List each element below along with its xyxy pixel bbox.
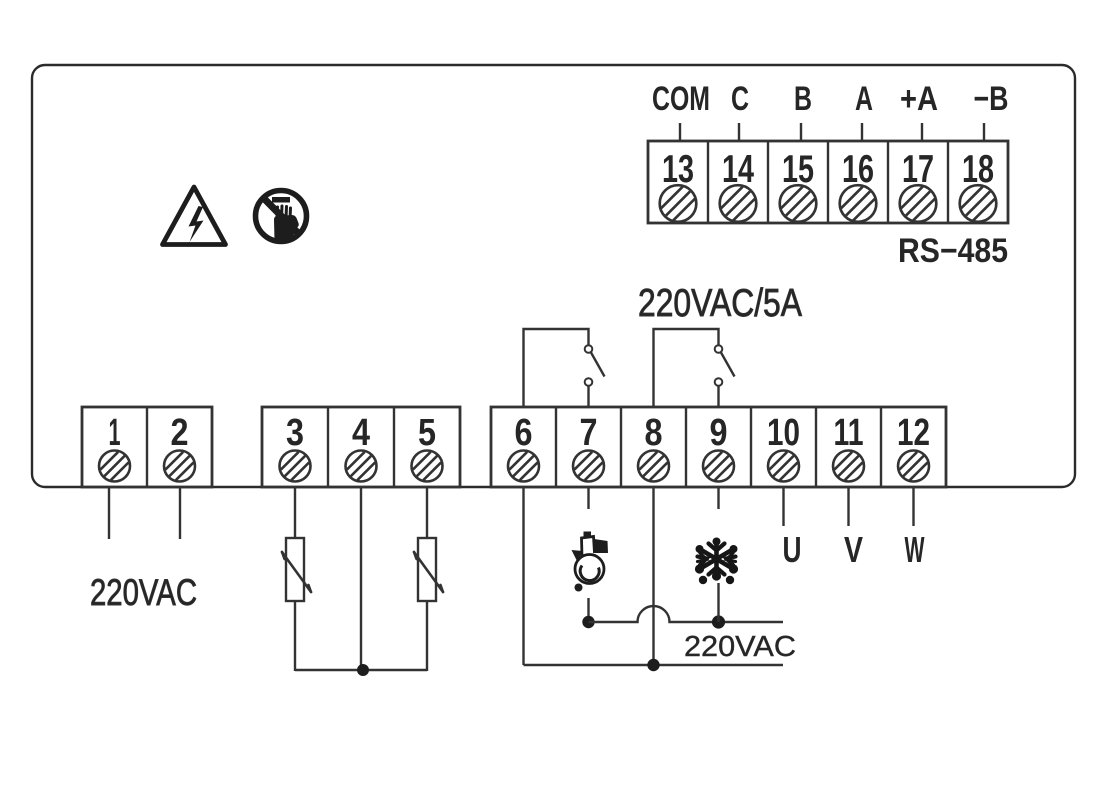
RS-485 terminal block (13-18) [648,141,1008,223]
junction dot compressor branch [712,615,725,628]
wire from terminal 5 [426,487,428,538]
thermistor sensor RT2 body [418,538,436,601]
lead to B [800,123,802,141]
svg-text:11: 11 [834,412,864,454]
high voltage warning triangle [163,187,226,245]
terminal 3 screw [280,451,311,482]
wire below snowflake to junction [717,583,719,622]
snowflake cooling icon [695,538,738,585]
terminal 16 screw [840,185,877,222]
svg-text:B: B [794,80,812,118]
svg-text:2: 2 [171,412,189,454]
relay contact K2 upper pivot [715,345,723,353]
wire stub below terminal 12 [912,487,914,526]
wire from terminal 1 [108,487,110,539]
svg-text:4: 4 [352,412,370,454]
terminal 9 screw [703,451,734,482]
relay contact K1 upper pivot [585,345,593,353]
svg-text:1: 1 [109,412,121,454]
svg-text:3: 3 [286,412,304,454]
svg-text:W: W [905,529,925,570]
relay contact K1 wire to terminal 7 [587,386,589,407]
lead to -B [983,123,985,141]
terminal 10 screw [768,451,799,482]
terminal 18 screw [960,185,997,222]
sensor junction dot [357,664,369,676]
relay contact K2 wire to terminal 9 [717,386,719,407]
wire below RT1 [294,601,296,671]
sensor common wire [295,669,427,671]
wire from terminal 3 [294,487,296,538]
terminal 12 screw [898,451,929,482]
wire from terminal 2 [179,487,181,539]
junction terminal 8 to lower supply wire [647,659,659,671]
lead to C [738,123,740,141]
wire stub below terminal 11 [847,487,849,526]
sensor terminal block (3-5) [262,407,460,487]
terminal 13 screw [660,185,697,222]
svg-text:220VAC/5A: 220VAC/5A [638,282,802,325]
terminal 5 screw [412,451,443,482]
svg-text:A: A [855,80,873,118]
wire stub below terminal 7 [587,487,589,509]
wire from terminal 8 down [652,487,654,665]
wire from terminal 6 down [522,487,524,665]
power terminal block (1-2) [82,407,212,487]
thermistor sensor RT1 body [286,538,304,601]
svg-text:U: U [783,529,802,570]
lead to COM [679,123,681,141]
terminal 4 screw [346,451,377,482]
wire from terminal 4 [360,487,362,671]
relay output terminal block (6-12) [491,407,946,487]
wire below RT2 [426,601,428,671]
terminal 15 screw [780,185,817,222]
lead to A [861,123,863,141]
svg-text:10: 10 [767,412,800,454]
wire stub below terminal 10 [782,487,784,526]
svg-text:12: 12 [897,412,930,454]
terminal 2 screw [164,451,195,482]
do not touch icon [256,191,307,244]
junction dot heater branch [582,616,594,628]
relay contact K1 wire from terminal 6 [524,329,589,407]
relay contact K2 wire from terminal 8 [654,329,719,407]
terminal 17 screw [900,185,937,222]
thermistor sensor RT2 stroke [414,552,443,592]
svg-text:9: 9 [710,412,728,454]
lower supply wire [524,664,784,666]
relay contact K2 lower pivot [715,378,723,386]
wire stub below terminal 9 [717,487,719,509]
terminal 1 screw [99,451,130,482]
terminal 14 screw [720,185,757,222]
svg-text:RS−485: RS−485 [898,232,1008,270]
svg-text:220VAC: 220VAC [684,631,796,663]
terminal 11 screw [833,451,864,482]
wire below heater lamp to junction [587,598,589,622]
thermistor sensor RT1 stroke [282,552,311,592]
heater lamp icon [572,532,609,592]
relay contact K2 blade [721,353,735,377]
svg-text:−B: −B [974,80,1009,118]
controller enclosure outline [32,65,1075,487]
svg-text:C: C [731,80,749,118]
terminal 6 screw [508,451,539,482]
svg-text:+A: +A [900,80,938,118]
relay contact K1 lower pivot [585,378,593,386]
svg-text:V: V [844,529,863,570]
svg-text:5: 5 [418,412,436,454]
svg-text:220VAC: 220VAC [90,572,197,613]
terminal 7 screw [573,451,604,482]
svg-text:7: 7 [580,412,598,454]
lead to +A [921,123,923,141]
svg-text:8: 8 [645,412,663,454]
svg-text:COM: COM [652,80,710,118]
relay contact K1 blade [591,353,605,377]
upper supply wire with bridge over wire 8 [589,606,784,622]
terminal 8 screw [638,451,669,482]
svg-text:6: 6 [515,412,533,454]
